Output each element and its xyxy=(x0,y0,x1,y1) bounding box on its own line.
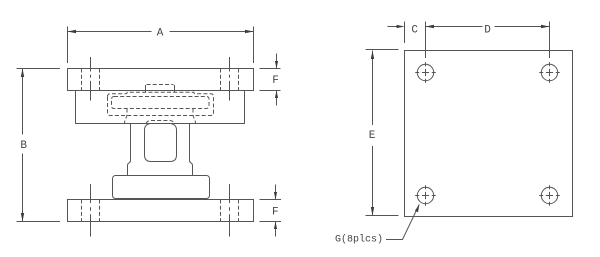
dimension C arrow and line xyxy=(388,26,403,28)
dimension B arrowheads xyxy=(21,69,24,222)
dimension E line xyxy=(372,51,374,216)
upper mounting block xyxy=(76,91,245,124)
dimension B extension lines xyxy=(17,69,61,222)
base plate (top view) xyxy=(405,51,573,217)
dimension D extension lines xyxy=(426,22,550,59)
svg-text:D: D xyxy=(484,25,491,37)
top-left bolt centerline xyxy=(90,57,92,101)
dimension F top extension lines xyxy=(260,69,281,91)
hidden hole dome (dashed) xyxy=(146,121,175,124)
top plate xyxy=(68,69,254,91)
top-right bolt hidden hole lines xyxy=(221,69,239,91)
hole bottom-left xyxy=(417,187,433,203)
svg-text:F: F xyxy=(272,75,279,87)
hole bottom-right xyxy=(541,187,557,203)
dimension D line xyxy=(426,26,550,28)
bottom-left bolt hidden hole lines xyxy=(82,200,100,222)
bottom-right bolt hidden hole lines xyxy=(221,200,239,222)
bottom-right bolt centerline xyxy=(229,184,231,237)
load cell body hidden outline (inner dashed) xyxy=(112,97,210,109)
dimension F bottom extension lines xyxy=(260,200,282,222)
bottom-left bolt centerline xyxy=(90,184,92,237)
svg-text:A: A xyxy=(157,28,164,40)
load cell column xyxy=(128,124,193,176)
bottom plate xyxy=(68,200,254,222)
dimension A extension lines xyxy=(68,27,254,64)
hidden column sides (dashed) xyxy=(125,109,196,124)
hole top-right xyxy=(541,64,557,80)
dimension E arrowheads xyxy=(371,51,374,216)
svg-text:B: B xyxy=(20,140,27,152)
top-right bolt centerline xyxy=(229,57,231,101)
hole top-left xyxy=(417,64,433,80)
dimension C extension line (plate edge) xyxy=(404,22,406,44)
dimension F bottom arrows xyxy=(275,185,277,237)
load cell body hidden outline (outer dashed) xyxy=(108,92,214,115)
dimension D arrowheads xyxy=(426,25,550,28)
leader to hole G xyxy=(386,205,419,240)
dimension B line xyxy=(22,69,24,222)
load pin hidden in top plate (dashed bump) xyxy=(146,85,175,92)
dimension A line xyxy=(68,31,254,33)
svg-text:E: E xyxy=(369,130,376,142)
dimension F top arrows xyxy=(276,54,278,106)
svg-text:F: F xyxy=(272,206,279,218)
svg-text:C: C xyxy=(411,25,418,37)
dimension E extension lines xyxy=(366,50,399,216)
top-left bolt hidden hole lines xyxy=(82,69,100,91)
svg-text:G(8plcs): G(8plcs) xyxy=(335,234,383,246)
middle block xyxy=(113,176,210,199)
dimension A arrowheads xyxy=(68,30,254,33)
column through-hole xyxy=(145,124,177,162)
